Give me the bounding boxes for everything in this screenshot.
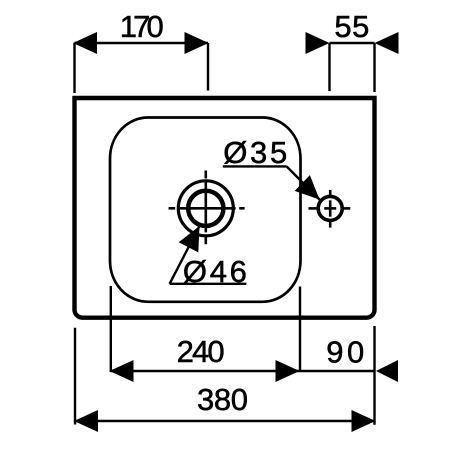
svg-text:55: 55 (334, 9, 369, 44)
drain centerline vertical (205, 171, 208, 245)
label D46 leader arrow (179, 226, 200, 252)
tap hole circle D35 (318, 196, 342, 220)
dimension 90 arrow right outside (376, 360, 398, 382)
label D35 underline (223, 165, 287, 167)
tap hole centerline vertical (329, 190, 332, 228)
dimension 90 line (300, 370, 375, 372)
dimension 240/90 extension line middle (299, 287, 301, 373)
dimension 240 arrow right (276, 360, 300, 382)
dimension 380 extension line left (74, 328, 76, 425)
svg-text:170: 170 (120, 9, 164, 44)
drain centerline horizontal (169, 207, 245, 210)
dimension 90 extension line right (373, 326, 375, 425)
dimension 170 extension line right (207, 43, 209, 91)
inner basin bowl outline (110, 118, 301, 302)
dimension 55 arrow right outside (375, 32, 399, 54)
dimension 55 extension line right (373, 43, 375, 92)
dimension 55 extension line left (328, 43, 330, 91)
svg-text:380: 380 (197, 382, 248, 417)
label D35 leader line (287, 166, 320, 199)
svg-text:Ø35: Ø35 (223, 135, 287, 170)
dimension 55 arrow left outside (306, 32, 330, 54)
label D46 underline (170, 283, 247, 285)
washbasin outer rim rectangle (75, 98, 375, 318)
drain hole inner circle D46 (188, 191, 223, 226)
dimension 240 arrow left (110, 360, 134, 382)
tap hole centerline horizontal (309, 207, 351, 210)
label D35 leader arrow (295, 175, 320, 200)
dimension 170 extension line left (73, 43, 75, 93)
svg-text:240: 240 (177, 334, 225, 369)
dimension 240 line (111, 370, 300, 372)
label D46 leader line (170, 226, 200, 284)
dimension 55 line (330, 42, 375, 44)
dimension 170 arrow left (73, 32, 97, 54)
dimension 380 line (75, 420, 375, 422)
dimension 380 arrow left (74, 410, 98, 432)
dimension 240 extension line left (110, 286, 112, 372)
dimension 380 arrow right (352, 410, 376, 432)
dimension 170 arrow right (185, 32, 209, 54)
dimension 170 line (75, 42, 209, 44)
drain recess outer circle (178, 181, 233, 236)
